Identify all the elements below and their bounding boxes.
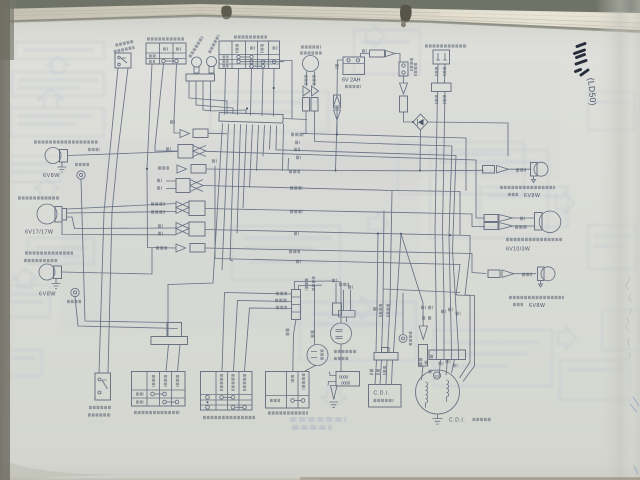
wire: earth down and across to left bar: [81, 179, 167, 322]
wire: connector top exits: [295, 281, 331, 290]
svg-text:6V8W: 6V8W: [43, 173, 60, 179]
harness connector column: blue pair: [166, 147, 171, 151]
wire: brown run: [212, 159, 217, 163]
connector on battery minus: [334, 95, 341, 108]
oil level switch S4: [433, 50, 450, 64]
svg-text:C.D.I.: C.D.I.: [449, 418, 465, 424]
wire: light switch blue column down: [155, 64, 178, 151]
connector: oil switch 4P: [432, 83, 452, 92]
CDI feed labels: [373, 307, 378, 311]
rear flasher lamp right: [531, 163, 538, 177]
front flasher lamp left: [39, 264, 55, 280]
fuse holder F1: [361, 54, 370, 58]
magneto connector bar CB4: [429, 350, 466, 360]
rear flasher lamp left: connector: [488, 270, 500, 278]
flasher harness connector CB2 (vertical 4P): [292, 290, 301, 320]
wire: right pair into magneto: [456, 295, 470, 378]
main switch S3 table: [219, 41, 280, 69]
node: dark green tap: [146, 168, 148, 170]
node: black bus joints: [377, 233, 379, 235]
stop/tail lamp: connectors: [484, 215, 498, 222]
wire: relay bottom to resistor: [340, 344, 342, 372]
wire label pink, connector to horn switch: [286, 329, 290, 336]
stop switch S1 box: [115, 53, 131, 68]
connector: pilot lamp bullets: [307, 72, 315, 87]
CDI tee connector: [374, 353, 398, 361]
wire labels: right of column: [291, 133, 304, 137]
wire labels: gray/black pair: [435, 67, 438, 76]
top shading under stack: [0, 16, 640, 60]
wire: tee to CDI unit: [375, 360, 393, 385]
wire: bus drop smalls: [283, 124, 284, 171]
horn switch title: [268, 411, 308, 414]
ground: flasher R: [58, 162, 67, 172]
faint pencil marks on page edge: [626, 276, 632, 358]
labels below bar: [439, 362, 444, 366]
node: kill wire joint: [336, 133, 338, 135]
wire labels: gray/black pair 2: [435, 95, 438, 104]
wire: headlight shell to left bar: [75, 297, 178, 329]
ground: resistor branch: [331, 386, 338, 400]
wire: main switch columns to bus connector: [225, 69, 226, 115]
headlight L4: [37, 204, 57, 224]
oil level switch S4 label: [425, 44, 467, 47]
earth point E1: [77, 171, 85, 179]
flasher relay K1: [331, 323, 352, 344]
oil warning lamp L2: [207, 57, 217, 67]
resistor block R1: [336, 372, 360, 387]
stop/tail lamp: [535, 213, 543, 231]
wire: H-levels into CDI zone: [330, 281, 341, 323]
svg-text:0000: 0000: [341, 381, 351, 386]
wire: H2 yellow run: [315, 142, 453, 351]
wire: battery minus down: [337, 60, 343, 95]
stop switch S5 label: [89, 406, 111, 409]
headlight label: [18, 196, 60, 199]
wire: H3 sky run: [302, 151, 459, 350]
main switch S3 title: [234, 35, 267, 38]
flasher relay label: [334, 350, 357, 353]
stop switch S1 (top, front brake) label: [113, 41, 136, 51]
wire: rectifier out right: [428, 122, 508, 156]
svg-text:6V10/3W: 6V10/3W: [506, 247, 530, 253]
rear flasher lamp right: connector: [483, 166, 495, 174]
OVERLAYS: [0, 0, 16, 480]
wire: lamp bar fanout down: [189, 81, 227, 114]
rectifier D1 (diamond): [413, 114, 428, 130]
audio pilot lamp L3 label: [301, 45, 321, 48]
front flasher lamp left label: [25, 251, 73, 254]
wire: flasher R to harness: [68, 151, 179, 155]
wire: light switch yellow column down: [174, 64, 180, 133]
earth point E2 label: [67, 300, 81, 303]
wire labels below pilot lamp: [304, 75, 307, 85]
svg-text:6V8W: 6V8W: [524, 193, 541, 199]
oil warning lamp L2 label: [209, 35, 218, 53]
svg-text:10: 10: [434, 374, 439, 379]
horn switch S8: [266, 372, 310, 409]
wire label pink to horn: [311, 331, 315, 338]
wire label: black (battery minus): [335, 64, 339, 69]
svg-text:6V17/17W: 6V17/17W: [25, 230, 54, 236]
front flasher lamp right: [45, 148, 61, 164]
wire: H1 black/white run: [302, 134, 466, 191]
horn H1: [307, 345, 328, 366]
meter lamp L1 label: [190, 37, 203, 57]
wire: stop switch to handle stop switch (2 runs): [99, 68, 118, 373]
svg-text:C.D.I.: C.D.I.: [374, 391, 390, 397]
node: battery minus joins bus: [334, 169, 336, 171]
earth point E1 label: [75, 163, 89, 166]
stop/tail labels: [506, 238, 563, 241]
bus connector bar CB1: [219, 113, 283, 124]
connector: fuse to rectifier: [403, 76, 405, 83]
wire: diagonals into kill connector: [401, 234, 423, 326]
fuse label: [410, 58, 413, 71]
wire: headlight leads: [67, 204, 177, 210]
wire: brown/white to flasher switch: [275, 299, 287, 303]
aux device (diode block) labels: [332, 279, 337, 283]
CDI magneto M1: [416, 370, 460, 414]
flasher switch S7: [201, 372, 253, 411]
wire: flasher L across and up: [62, 248, 153, 274]
magneto harness labels above bar: [419, 358, 423, 367]
wire label: red (battery plus): [362, 49, 367, 53]
harness connector column: green/yellow pair: [151, 202, 165, 206]
audio pilot lamp L3: [303, 56, 319, 72]
front flasher lamp right label: [34, 140, 98, 143]
node: fanout joint: [246, 107, 248, 109]
rear flasher left labels: [509, 296, 564, 299]
ground: flasher L: [52, 279, 61, 289]
wire: bar to dimmer switch: [166, 345, 180, 372]
lamp socket bar: [186, 74, 215, 81]
svg-text:6V8W: 6V8W: [529, 303, 546, 309]
notch tab 2: [400, 5, 412, 23]
kill switch wire triangle: [334, 96, 341, 106]
wire: dark green to flasher switch: [276, 292, 287, 296]
faint blue stamp bleed: [290, 419, 346, 428]
harness connector column: black/yellow pair: [157, 179, 162, 183]
wire: bus bar fanout down-left: [168, 124, 223, 337]
wire: main switch right feed: [280, 61, 293, 120]
flasher switch title: [203, 416, 255, 419]
stop switch S5 (handle): [95, 373, 111, 400]
svg-text:6V8W: 6V8W: [39, 292, 56, 298]
thin gap shadow under page stack: [0, 15, 640, 34]
fuse F1 10A: [399, 62, 408, 76]
left harness plug (above bar): [167, 323, 182, 337]
dimmer switch S6: [132, 372, 186, 407]
harness connector column: yellow bullet: [170, 120, 175, 124]
meter lamp L1: [192, 57, 202, 67]
wire: dark brown to flasher switch: [276, 306, 287, 310]
svg-text:0000: 0000: [339, 375, 349, 380]
kill connector labels: [421, 306, 426, 310]
earth point E2: [71, 288, 79, 296]
harness connector column: dark green bullet: [158, 166, 169, 170]
light switch S2 title: [147, 37, 184, 40]
CDI unit U1: [369, 385, 402, 408]
node: rectifier input: [412, 121, 414, 123]
wire: right harness bundle verticals: [435, 92, 438, 351]
light switch S2 table: [146, 43, 186, 64]
svg-text:6V 2AH: 6V 2AH: [342, 78, 361, 84]
rear flasher lamp left: [538, 267, 545, 281]
harness connector column: dark brown bullet: [156, 246, 167, 250]
CDI feed wires: [376, 234, 378, 353]
wire: rectifier out bottom joins bus: [419, 130, 422, 171]
wire: oil switch leads: [438, 64, 446, 83]
page tab mark (model name, rotated): [575, 44, 589, 76]
earth point E3: [399, 335, 407, 343]
wire: light switch common down to dark-green tap and dark-brown run: [147, 64, 176, 248]
table surface dark band at top: [0, 0, 640, 14]
kill connector (bullet+2P): [419, 326, 428, 340]
wire: bus bar right exit: [283, 119, 307, 120]
BLEED: [0, 25, 640, 408]
wire: bar to magneto: [439, 360, 455, 378]
soft bleed washes: [60, 140, 420, 330]
book page-stack cream edge: [0, 4, 640, 31]
node: on main switch column: [273, 87, 275, 89]
notch tab 1: [221, 6, 232, 20]
aux device: [336, 283, 351, 311]
SCHEMATIC: [99, 35, 322, 373]
left harness bar CB3: [151, 337, 188, 345]
harness connector column: black pair: [158, 224, 163, 228]
wire: pilot lamp leads down: [302, 111, 306, 134]
wire: horn to earth column: [305, 366, 316, 372]
dimmer switch title: [134, 411, 180, 414]
battery BT1: [343, 57, 365, 75]
rear flasher right labels: [500, 186, 555, 189]
ground: magneto: [433, 414, 443, 424]
